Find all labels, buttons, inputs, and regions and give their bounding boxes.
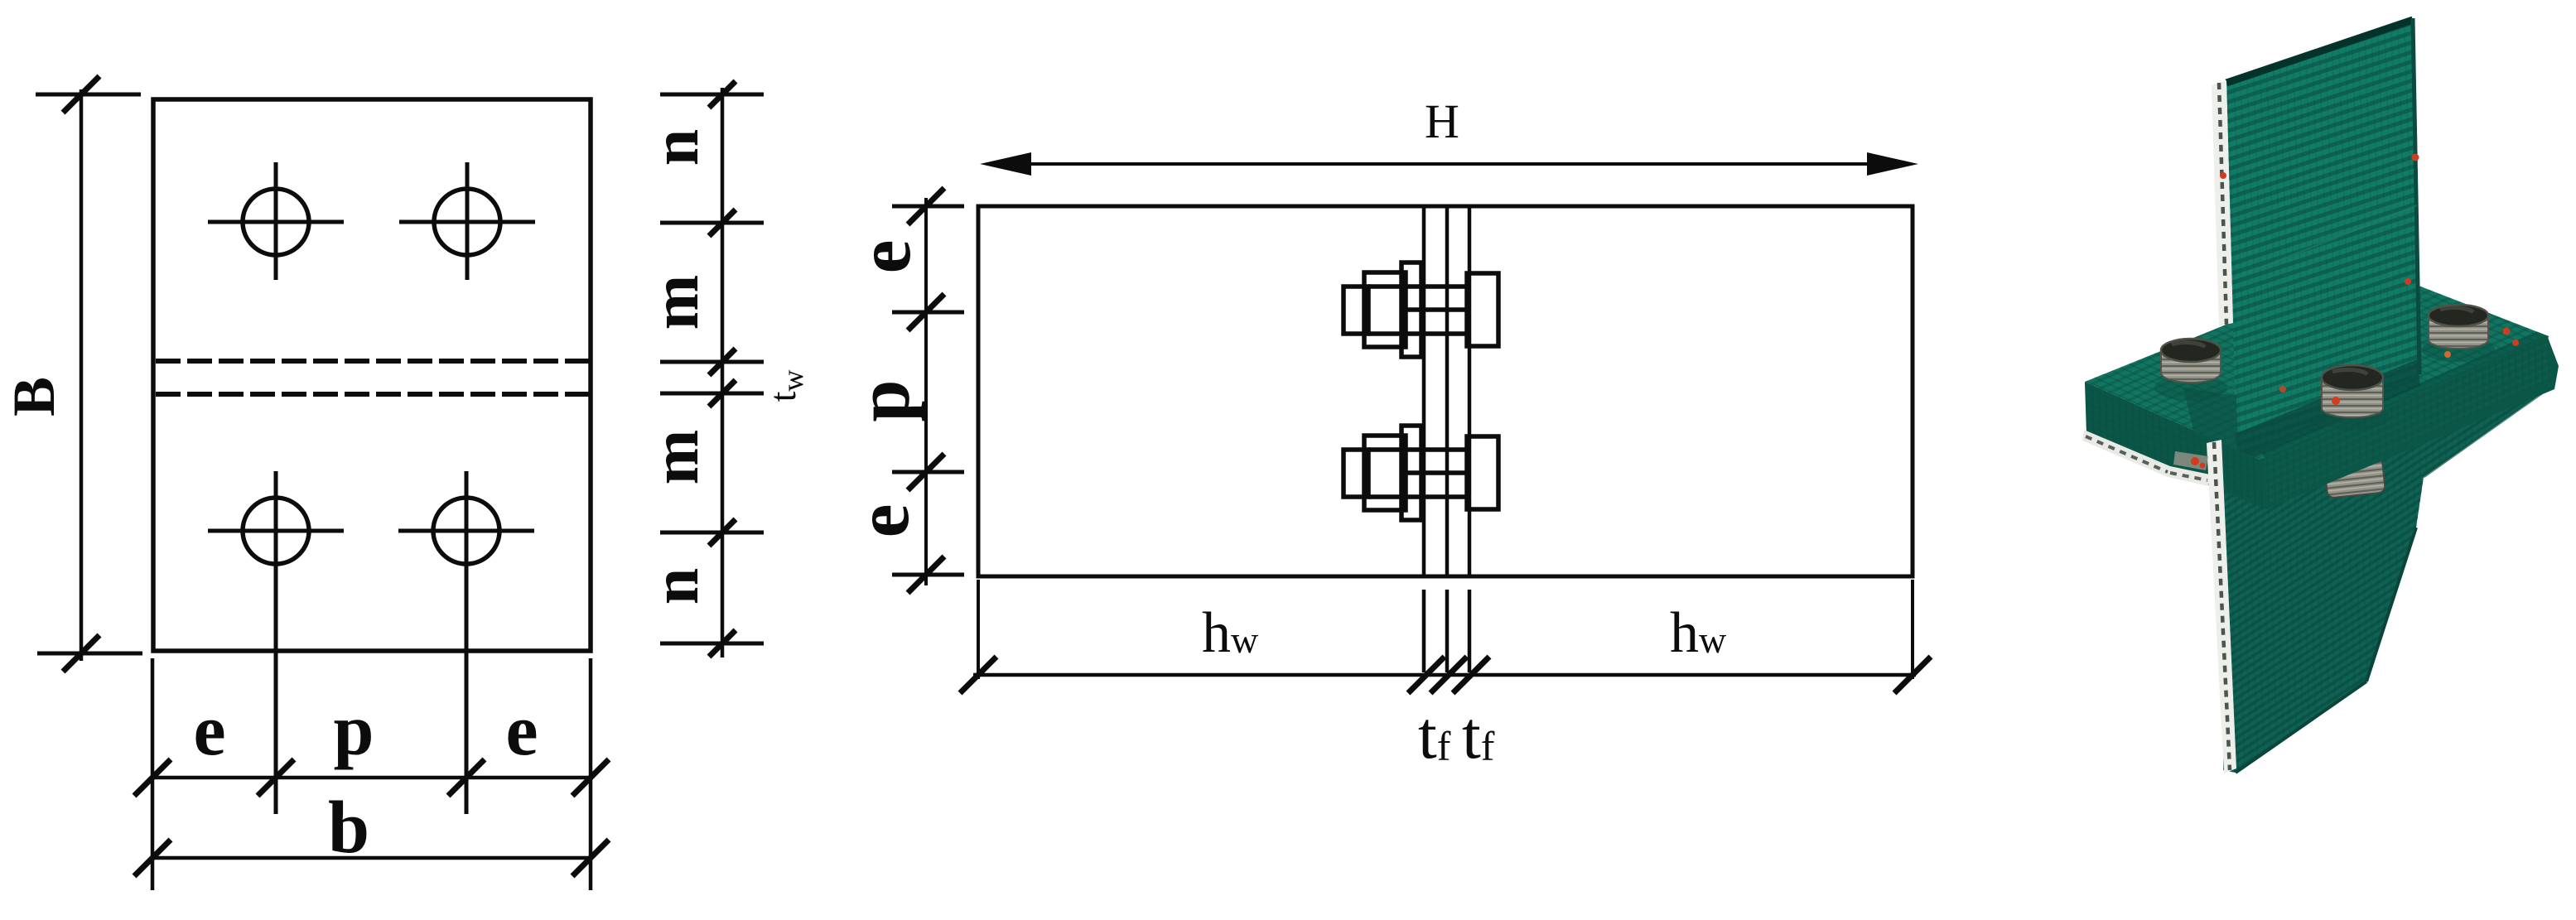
bolt 1 [2154, 339, 2227, 401]
svg-text:b: b [328, 787, 369, 869]
svg-text:H: H [1425, 94, 1459, 148]
svg-text:m: m [639, 430, 712, 485]
flange ext line 1 below [1422, 590, 1426, 672]
svg-text:hw: hw [1202, 601, 1259, 665]
bolt 2 [2315, 365, 2390, 431]
svg-text:m: m [639, 275, 712, 330]
bolt hole top-left [208, 162, 344, 280]
bottom extension lines [978, 580, 1913, 679]
svg-text:e: e [840, 504, 924, 538]
svg-text:e: e [193, 691, 225, 771]
flange plates vertical line 3 [1468, 208, 1472, 575]
web upper face [2226, 18, 2419, 457]
right dimension column n m m n [660, 81, 764, 657]
svg-text:p: p [334, 691, 374, 771]
bolt hole bottom-right [398, 471, 534, 814]
bottom extension lines [152, 658, 591, 890]
dimension line e p e [134, 759, 609, 796]
svg-text:p: p [841, 379, 925, 421]
dimension line b [134, 840, 609, 876]
svg-text:tf: tf [1418, 697, 1451, 773]
flange right front face [2260, 335, 2559, 510]
svg-text:n: n [639, 129, 712, 166]
flange ext line 2 below [1445, 590, 1450, 672]
flange plates vertical line 1 [1422, 208, 1426, 575]
shadow wedge left of web on flange [2183, 388, 2239, 461]
svg-text:tf: tf [1462, 697, 1495, 773]
H arrowhead left [980, 152, 1031, 176]
dimension B line [36, 76, 142, 672]
svg-text:B: B [1, 377, 67, 417]
bolt hole top-right [399, 162, 535, 280]
bolt 3 [2422, 305, 2495, 362]
svg-text:e: e [842, 240, 926, 274]
nut sliver under left wing [2173, 451, 2208, 470]
flange ext line 3 below [1468, 590, 1472, 672]
flange plates vertical line 2 [1445, 208, 1450, 575]
web plate rectangle [978, 206, 1913, 576]
svg-text:tw: tw [761, 370, 809, 402]
web left edge strip lower [2207, 440, 2236, 773]
H arrowhead right [1867, 152, 1918, 176]
flange left end front face [2082, 382, 2265, 509]
flange gap hidden edge upper (dashed) [156, 359, 589, 364]
bolt hole bottom-left [208, 471, 344, 814]
web-flange intersection shadow [2235, 359, 2420, 464]
plate outline [153, 99, 591, 651]
bolt nut under right wing [2324, 457, 2385, 498]
dimension H arrow line [990, 162, 1908, 166]
dimension line hw [960, 657, 1931, 693]
svg-text:n: n [639, 568, 712, 605]
red stress spots [2191, 154, 2519, 469]
web lower face [2223, 387, 2551, 773]
left dimension column e p e [892, 188, 964, 593]
flange top face [2085, 267, 2549, 461]
flange gap hidden edge lower (dashed) [156, 392, 589, 397]
web left edge strip upper [2212, 80, 2233, 326]
bolt assembly upper [1343, 263, 1498, 357]
bolt assembly lower [1343, 426, 1498, 520]
svg-text:hw: hw [1670, 601, 1727, 665]
svg-text:e: e [505, 691, 538, 771]
